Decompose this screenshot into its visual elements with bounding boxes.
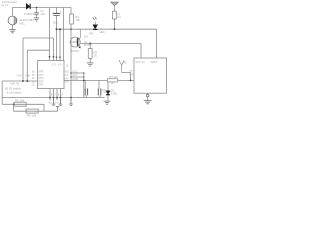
wire top rail <box>13 7 72 9</box>
wire x27 down <box>26 50 28 81</box>
resistor R2 <box>89 44 91 49</box>
svg-text:1k: 1k <box>94 54 98 58</box>
svg-text:VCC: VCC <box>72 69 78 73</box>
small antenna A2 <box>119 61 124 73</box>
node x130.5-y80.4 <box>130 80 132 82</box>
svg-text:IR1: IR1 <box>89 32 94 36</box>
wire A2 to module <box>122 73 131 81</box>
wire y43.5 emitter/collector line <box>80 43 141 45</box>
wires y73 y77 right of IC <box>71 73 84 77</box>
ground D3 <box>104 101 111 104</box>
svg-text:ANT: ANT <box>129 74 134 77</box>
svg-text:SW1 9V: SW1 9V <box>10 81 20 85</box>
svg-text:4 5: 4 5 <box>58 62 62 66</box>
capacitor C2 <box>56 8 58 14</box>
svg-text:LED: LED <box>99 30 104 34</box>
node R1-y29 <box>70 28 72 30</box>
node x71-y73 <box>70 72 72 74</box>
ground small x57.6 <box>56 105 60 107</box>
diode D3 <box>107 82 109 91</box>
resistor R6 <box>26 109 38 113</box>
wire y50 <box>27 49 49 51</box>
capacitor C4 <box>98 80 100 88</box>
svg-text:a1: a1 <box>49 100 52 104</box>
node x83.8-y77 <box>83 76 85 78</box>
node rail-C1 <box>36 7 38 9</box>
node y43.5-R2 <box>89 43 91 45</box>
node x23-y81 <box>22 80 24 82</box>
antenna ANT1 <box>111 2 119 6</box>
IC top pin dots <box>49 56 51 58</box>
microphone MIC1 <box>8 16 17 25</box>
svg-text:BC557: BC557 <box>84 43 93 47</box>
svg-text:7: 7 <box>54 93 56 97</box>
svg-text:b2: b2 <box>56 100 59 104</box>
svg-text:BC547: BC547 <box>71 49 80 53</box>
resistor R4 <box>107 79 117 82</box>
svg-text:VSS: VSS <box>63 80 68 84</box>
wire y29 corner down <box>156 29 158 58</box>
svg-text:6: 6 <box>58 93 60 97</box>
grounds below rail <box>52 98 56 106</box>
inductor L1 <box>113 11 117 19</box>
svg-text:GND: GND <box>72 77 78 81</box>
svg-text:+9V: +9V <box>17 73 22 77</box>
svg-text:B1 9V battery: B1 9V battery <box>5 87 21 91</box>
wire R1 down <box>70 24 72 98</box>
wire y43.5 corner down <box>140 44 142 59</box>
node x71-y77 <box>70 76 72 78</box>
wire pin4 vertical <box>59 29 61 60</box>
svg-text:5: 5 <box>61 93 63 97</box>
ground module <box>147 93 149 100</box>
capacitor C1 <box>36 8 38 13</box>
svg-text:R6 10k: R6 10k <box>27 114 37 118</box>
wire x57.6 up <box>57 107 59 112</box>
svg-text:SW: SW <box>26 73 31 77</box>
wire x23 down <box>22 38 24 81</box>
wire x13.6 down <box>13 104 15 111</box>
svg-text:2N: 2N <box>84 35 87 39</box>
labels <box>1 1 157 118</box>
node y29-x60 <box>59 28 61 30</box>
node x27-y81 <box>26 80 28 82</box>
wire left frame <box>1 81 3 104</box>
ground C1 <box>34 18 39 21</box>
svg-text:14: 14 <box>66 65 69 68</box>
svg-text:VDD: VDD <box>63 69 69 73</box>
resistor R5 <box>14 102 26 106</box>
svg-text:VCC IN: VCC IN <box>136 60 145 64</box>
wire y80.4 main <box>64 79 134 81</box>
wire y111.2 <box>14 110 58 112</box>
wire x83.8 down <box>83 73 85 98</box>
svg-text:TX: TX <box>129 70 133 73</box>
svg-text:D3: D3 <box>102 88 106 92</box>
svg-text:2 3: 2 3 <box>52 62 56 66</box>
wire y29 horizontal long <box>57 28 157 30</box>
svg-text:10k: 10k <box>75 18 80 22</box>
diode D1 <box>26 4 30 10</box>
svg-text:ant: ant <box>117 16 121 19</box>
rail y97.5 <box>2 97 104 99</box>
svg-text:GP1: GP1 <box>38 83 44 87</box>
module M1 box <box>134 58 167 93</box>
svg-text:8: 8 <box>51 93 53 97</box>
svg-text:12: 12 <box>32 84 35 87</box>
IC bottom pins <box>50 89 61 98</box>
transistor Q1 <box>70 37 80 47</box>
svg-text:R7 4k7: R7 4k7 <box>110 75 119 79</box>
bottom ladder wire y104.3 <box>2 103 44 105</box>
resistor R1 <box>70 14 74 24</box>
svg-text:A2: A2 <box>124 61 128 64</box>
svg-text:R5 10k: R5 10k <box>15 98 25 102</box>
svg-text:+: + <box>60 10 62 14</box>
svg-text:4k7: 4k7 <box>111 81 116 85</box>
arrows into D2 <box>93 17 97 20</box>
node x13.6 <box>13 103 15 105</box>
svg-text:CLK: CLK <box>63 73 68 77</box>
wire x44 down <box>43 104 45 111</box>
svg-text:rev 1.0: rev 1.0 <box>1 4 9 7</box>
left rail y81 <box>2 80 37 82</box>
wire mic to ground <box>12 25 14 30</box>
wire rail corner to R1 <box>70 8 72 15</box>
nodes on rail y97.5 <box>49 97 51 99</box>
wire pin1 vertical <box>49 8 51 61</box>
LED D2 photodiode <box>93 25 98 29</box>
svg-text:MIC: MIC <box>20 21 25 25</box>
svg-text:9 volt battery: 9 volt battery <box>7 90 23 94</box>
wire mic to rail <box>12 8 14 17</box>
svg-text:DATA: DATA <box>151 60 158 64</box>
svg-text:1N5819: 1N5819 <box>24 12 35 16</box>
IC U1 box <box>38 61 64 89</box>
node x83.8-y80.4 <box>83 80 85 82</box>
svg-text:104: 104 <box>40 12 45 16</box>
node antenna-y29 <box>113 28 115 30</box>
node y29 junctions <box>56 28 58 30</box>
ground mic <box>9 30 16 33</box>
node x83.8-y73 <box>83 72 85 74</box>
svg-text:OUT: OUT <box>72 73 78 77</box>
capacitor C3 <box>84 80 86 88</box>
svg-text:10u: 10u <box>53 21 58 25</box>
ground R2 <box>87 63 94 66</box>
wire pin2 vertical <box>53 38 55 61</box>
wire y38 <box>23 37 54 39</box>
svg-text:4148: 4148 <box>111 92 117 96</box>
wire pin5 vertical <box>63 8 65 61</box>
